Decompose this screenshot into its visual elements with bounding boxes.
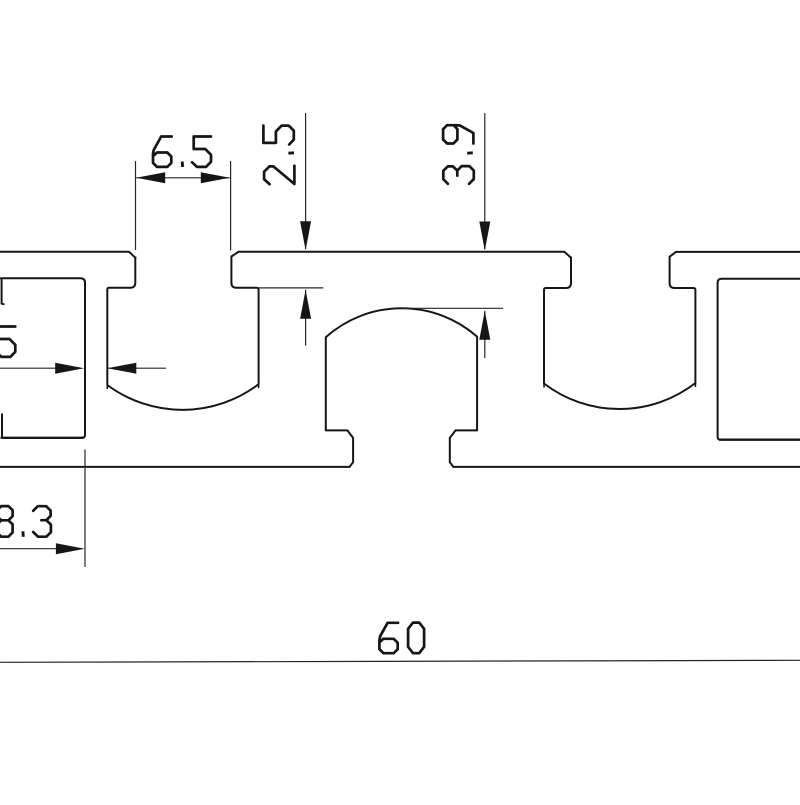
profile bottom edge left of slot bbox=[0, 466, 350, 468]
left hollow box: inner right wall bbox=[82, 282, 85, 438]
cavity wall overshoot ticks at arc junctions bbox=[106, 385, 108, 390]
dim 1.5 wall thickness (cut off): left dimension line with right-pointing arrowhead bbox=[0, 367, 57, 369]
dim 2.5: down arrowhead at top surface bbox=[300, 221, 311, 250]
dim 2.5: lower leader and up arrowhead at ledge bbox=[305, 290, 307, 346]
left hollow box: inner bottom wall bbox=[2, 437, 84, 439]
central arch tunnel (ceiling arc + side walls) bbox=[326, 308, 477, 430]
left hollow box: inner top wall bbox=[0, 278, 85, 283]
dim 3.9: lower leader and up arrowhead at arch top bbox=[484, 311, 486, 358]
right slot right chamfer to surface bbox=[670, 252, 676, 257]
dim 3.9: dimension line upper part bbox=[484, 113, 486, 249]
dim text 3.9 (rotated) bbox=[443, 166, 474, 184]
profile top surface right segment bbox=[676, 251, 800, 253]
dim 6.5: right arrowhead bbox=[201, 172, 230, 183]
right hollow box: inner left wall bbox=[718, 282, 721, 439]
left box cut-off notch upper bbox=[2, 280, 4, 305]
dim 6.5: dimension line bbox=[136, 177, 230, 179]
dim text 2.5 (rotated) bbox=[264, 166, 294, 185]
dim 2.5: dimension line upper part bbox=[305, 113, 307, 249]
dim 8.3: extension line bbox=[84, 450, 86, 568]
dim 3.9: extension line at arch top level bbox=[402, 307, 503, 309]
left slot right chamfer to surface bbox=[231, 252, 238, 257]
profile top surface middle segment bbox=[239, 252, 571, 258]
dim 8.3: dimension line with right-pointing arrowhead bbox=[0, 548, 57, 550]
dim 3.9: down arrowhead at top surface bbox=[479, 222, 490, 251]
dim text 8.3 (8 partially cut off) bbox=[0, 506, 13, 537]
bottom screw-slot right foot bbox=[450, 430, 477, 467]
profile top surface left segment bbox=[0, 252, 135, 258]
dim text 5 (leading chars cut off) bbox=[0, 327, 15, 357]
right hollow box: inner top wall bbox=[718, 279, 800, 283]
dim 6.5: left extension line bbox=[135, 161, 137, 250]
dim 6.5: left arrowhead bbox=[136, 172, 165, 183]
dim 6.5: right extension line bbox=[230, 161, 232, 251]
left box cut-off notch lower bbox=[1, 414, 3, 436]
left T-slot cavity outline bbox=[107, 257, 258, 410]
right hollow box: inner bottom wall bbox=[720, 439, 800, 441]
bottom screw-slot left foot bbox=[326, 430, 353, 467]
right T-slot cavity outline bbox=[544, 257, 695, 410]
dim 1.5 wall: right arrow pointing left at cavity wall, with tail bbox=[107, 367, 166, 369]
dim 2.5: extension line at slot ledge level bbox=[259, 287, 324, 289]
dim text 60 bbox=[379, 623, 398, 653]
dim 60: dimension line across bottom bbox=[0, 660, 800, 662]
dim text 6.5 bbox=[153, 137, 172, 167]
profile bottom edge right of slot bbox=[453, 466, 800, 468]
